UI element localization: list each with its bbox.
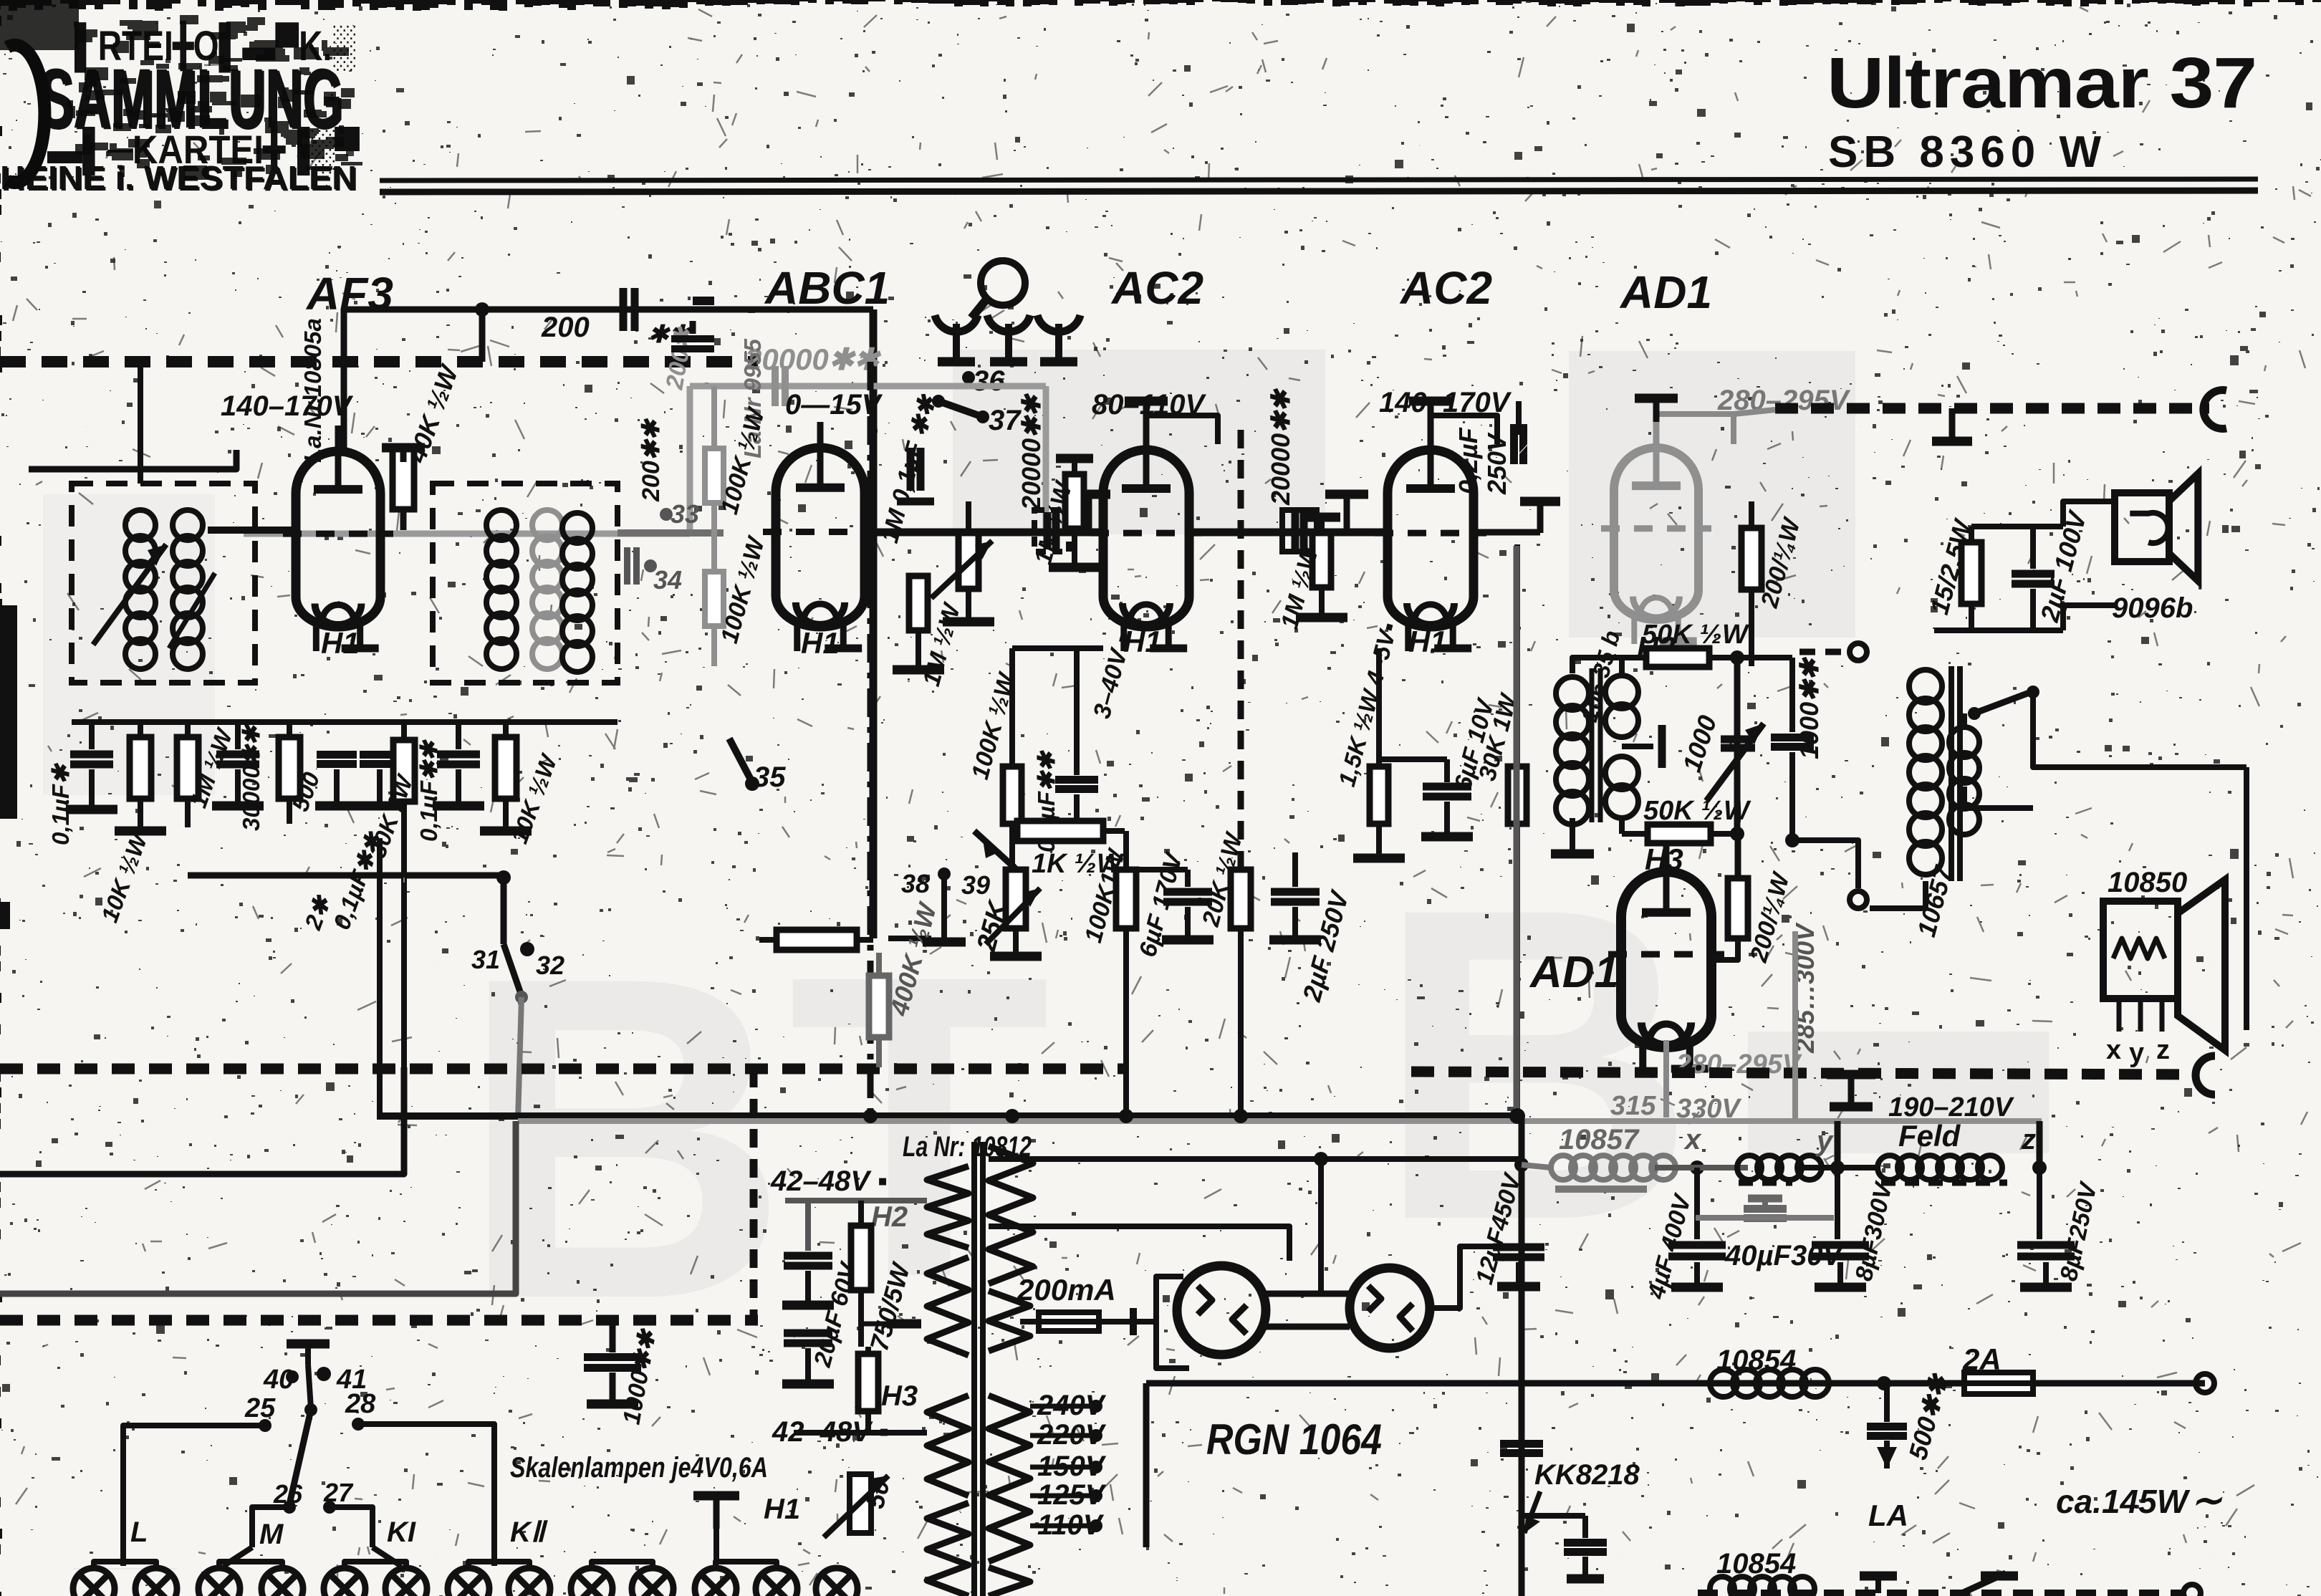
svg-text:200mA: 200mA — [1017, 1273, 1116, 1307]
HT rail ghost — [518, 1118, 2042, 1124]
chassis dashed low — [0, 1315, 758, 1326]
B+ dashed rail right — [1411, 1072, 2198, 1075]
grid cap 0,1uF — [907, 448, 915, 491]
svg-text:200✱✱: 200✱✱ — [638, 418, 665, 502]
resistor 10K 1/2W (1) — [130, 737, 151, 799]
svg-text:H3: H3 — [881, 1380, 918, 1412]
primary centre tap — [1622, 744, 1653, 749]
wire feedback — [888, 936, 931, 941]
svg-text:Skalenlampen je4V0,6A: Skalenlampen je4V0,6A — [510, 1452, 768, 1484]
capacitor 6uF 10V — [1423, 783, 1471, 791]
fuse 50 — [850, 1474, 871, 1533]
resistor 200/1.4W (2) — [1728, 878, 1748, 938]
HT dashed rail top — [1775, 403, 2209, 414]
svg-text:x: x — [2106, 1035, 2121, 1065]
wire dashes to node — [1799, 649, 1845, 655]
wire heater bottom — [794, 1430, 927, 1436]
wire speaker top loop — [1971, 524, 2063, 529]
wire HV tap mid — [989, 1226, 1289, 1261]
cap 0,2uF — [1510, 424, 1518, 464]
choke 10857 — [1551, 1155, 1575, 1180]
node A — [475, 302, 489, 317]
interstage primary lower — [1605, 756, 1638, 789]
signal wire mid — [873, 529, 1103, 537]
choke 10854 — [1710, 1370, 1737, 1397]
resistor 15/2,5W — [1961, 542, 1981, 604]
capacitor 1000** (mains) — [610, 1325, 616, 1352]
resistor 1K 1/2W — [1017, 821, 1103, 841]
wire cathode bus — [72, 719, 618, 725]
resistor 30K 1W — [393, 740, 415, 802]
capacitor 0,1uF (1) — [70, 751, 113, 759]
svg-text:M: M — [259, 1519, 284, 1550]
svg-text:RGN 1064: RGN 1064 — [1206, 1415, 1382, 1463]
svg-text:SB 8360 W: SB 8360 W — [1828, 128, 2107, 177]
wire top bus — [1737, 655, 1792, 660]
svg-text:ca.145W: ca.145W — [2056, 1483, 2191, 1520]
coupling cap 20000 (dashdot) — [1034, 510, 1069, 552]
wire fb left — [759, 937, 777, 943]
plate wire AC2-2 — [1431, 415, 1497, 444]
svg-text:La.Nr.10805a: La.Nr.10805a — [299, 318, 326, 463]
speaker matching coil — [1949, 727, 1979, 757]
svg-text:2A: 2A — [1962, 1342, 2002, 1376]
wire 2117 drop — [1514, 546, 1520, 1116]
potentiometer 1M — [958, 532, 979, 589]
resistor 750/5W — [851, 1226, 871, 1290]
svg-text:0,1µF✱✱: 0,1µF✱✱ — [415, 739, 442, 842]
svg-text:B: B — [1375, 817, 1696, 1312]
decorative — [671, 335, 714, 342]
svg-text:42–48V ▪: 42–48V ▪ — [772, 1416, 889, 1448]
resistor 100K 1/2W upper (ghost) — [705, 448, 724, 503]
capacitor 12uF450V — [1493, 1244, 1544, 1251]
resistor 1M 1/2W — [177, 737, 198, 799]
wire anode drop — [1318, 1159, 1324, 1294]
IF shield box 1 (dashed) — [72, 484, 255, 683]
svg-text:38: 38 — [901, 869, 930, 898]
switch contact 36 — [962, 371, 975, 384]
output choke winding — [1909, 670, 1942, 703]
winding bottom left — [927, 1503, 969, 1596]
svg-text:HEINE i. WESTFALEN: HEINE i. WESTFALEN — [1, 160, 358, 198]
node circle — [1850, 643, 1867, 660]
svg-text:32: 32 — [536, 951, 564, 980]
winding H1 low — [927, 1395, 969, 1496]
resistor 40K 1/2W — [393, 448, 414, 509]
winding HV anode — [989, 1146, 1033, 1284]
rect interconnect — [1266, 1291, 1350, 1297]
wire 530 drop — [377, 838, 383, 1120]
svg-text:27: 27 — [323, 1478, 354, 1507]
svg-text:y: y — [2129, 1038, 2144, 1068]
svg-text:31: 31 — [471, 945, 500, 974]
svg-text:H2: H2 — [871, 1201, 908, 1233]
switch 37 blade — [932, 395, 945, 408]
svg-text:Ultramar 37: Ultramar 37 — [1827, 43, 2257, 123]
switch 40/41 — [287, 1340, 330, 1349]
capacitor 6uF 170V — [1163, 888, 1212, 896]
svg-text:1000✱✱: 1000✱✱ — [1794, 657, 1824, 759]
tube AD1 output — [1621, 872, 1711, 1047]
node y — [1830, 1160, 1845, 1175]
capacitor 2uF 100V — [2012, 570, 2055, 578]
resistor 400K 1/2W — [869, 976, 889, 1037]
node 34 — [644, 559, 657, 572]
magnifier symbol — [981, 261, 1025, 305]
svg-text:z: z — [2156, 1035, 2170, 1065]
resistor 1M 1/2W (AC2-2) — [1312, 533, 1331, 587]
coil L2b (ghost gray) — [532, 510, 562, 540]
vertical 30K1W wire — [403, 878, 405, 883]
grid T (AD1) — [1474, 529, 1540, 536]
wire interstage top coil — [1572, 658, 1622, 673]
decorative — [772, 366, 779, 406]
interstage core — [1590, 668, 1595, 822]
rail end hook — [2196, 1056, 2215, 1095]
svg-text:35: 35 — [754, 761, 786, 793]
svg-text:AD1: AD1 — [1619, 266, 1712, 318]
wire AD1 cath (ghost) — [1663, 1040, 1669, 1117]
coil L1a — [125, 510, 155, 540]
fuse 200mA — [1039, 1312, 1099, 1331]
capacitor 500** — [1867, 1423, 1907, 1431]
switch blade 26 — [289, 1410, 311, 1504]
capacitor KK8218 lower — [1564, 1539, 1607, 1547]
winding rect filament — [989, 1291, 1030, 1351]
resistor 200/1.4W — [1741, 528, 1762, 590]
wire right rail — [2033, 713, 2246, 767]
resistor 1M 1/2W (ABC1) — [909, 576, 928, 630]
svg-text:26: 26 — [273, 1479, 303, 1509]
svg-text:140–170V: 140–170V — [221, 390, 354, 422]
mains wire — [1146, 1380, 2205, 1387]
svg-text:AC2: AC2 — [1110, 262, 1203, 314]
svg-text:250V: 250V — [1482, 432, 1512, 495]
rail T tap top — [1949, 408, 1956, 438]
wire choke bottom — [1870, 881, 1926, 908]
capacitor 30000* — [216, 751, 259, 759]
svg-text:50K ½W: 50K ½W — [1642, 620, 1750, 650]
resistor 500 — [279, 737, 300, 799]
svg-text:KI: KI — [387, 1516, 416, 1548]
contact 25 — [259, 1419, 271, 1432]
node z — [2032, 1160, 2047, 1175]
resistor 50K 1/2W (lower) — [1648, 825, 1711, 843]
coil L2b — [562, 513, 592, 543]
capacitor 1000 variable — [1721, 736, 1755, 744]
contact 28 — [352, 1418, 365, 1431]
winding LV bottom — [989, 1567, 1030, 1596]
wire x-coil — [1655, 1165, 1748, 1170]
tube ABC1 — [776, 448, 865, 627]
output choke core — [1948, 666, 1954, 881]
svg-text:34: 34 — [653, 565, 682, 595]
wire bus to resistor2 — [1735, 834, 1741, 880]
svg-text:AD1: AD1 — [1529, 948, 1619, 997]
svg-text:y: y — [1815, 1125, 1834, 1157]
grid T (AC2) — [1067, 490, 1110, 499]
winding H2 42-48V — [927, 1166, 969, 1248]
tube AF3 — [296, 451, 380, 627]
capacitor 20uF 60V a — [784, 1252, 832, 1260]
svg-text:10850: 10850 — [2108, 867, 2187, 898]
mains terminal — [2196, 1374, 2214, 1393]
tube AD1 driver (ghost) — [1614, 448, 1698, 620]
svg-text:H1: H1 — [321, 626, 360, 660]
choke small — [1737, 1155, 1762, 1180]
dial lamp feed T — [693, 1491, 739, 1501]
lamp bus — [73, 1568, 177, 1569]
resistor 100K 1W — [1116, 870, 1136, 928]
interstage primary upper — [1605, 676, 1638, 708]
coupling cap 2 — [1282, 510, 1317, 552]
antenna terminal 1 — [935, 315, 978, 332]
node x — [1690, 1160, 1704, 1175]
HT solid rail — [380, 1112, 1517, 1120]
speaker 10850 — [2103, 901, 2178, 999]
cap 34 coupling — [624, 547, 630, 585]
wire ABC1 frame right — [870, 309, 878, 938]
antenna terminal 2 — [987, 315, 1030, 332]
wire HV top to rect — [989, 1156, 1522, 1162]
dial lamps row — [73, 1568, 115, 1596]
winding LV mains — [989, 1395, 1030, 1562]
rectifier bulb 2 — [1350, 1268, 1430, 1348]
resistor h (feedback) — [777, 930, 857, 950]
svg-text:20000✱✱: 20000✱✱ — [1017, 393, 1046, 511]
wire node A to AVC bus — [479, 309, 486, 362]
wire 285 drop — [1792, 931, 1798, 1120]
svg-text:25: 25 — [244, 1393, 276, 1423]
wire switch 31 column — [501, 878, 507, 944]
volume control line (dash-dot) — [868, 362, 874, 1116]
coil L2a — [486, 510, 516, 540]
wire sg bus — [1012, 645, 1103, 651]
capacitor 20uF 60V b — [784, 1330, 832, 1337]
decorative — [0, 0, 362, 198]
svg-text:z: z — [2021, 1124, 2036, 1155]
capacitor 0,1uF (sg) — [1055, 776, 1098, 784]
signal wire 2 — [1189, 529, 1388, 537]
coil L1b — [173, 510, 203, 540]
rail T tap — [1827, 1070, 1875, 1080]
node B — [496, 870, 511, 885]
lamp feeds — [120, 1562, 126, 1566]
IF shield box 2 (dashed) — [433, 484, 618, 683]
grid line AF3 — [208, 527, 299, 534]
wire z drop — [2037, 1121, 2043, 1168]
wire loop left — [29, 450, 236, 469]
svg-text:0,2µF: 0,2µF — [1453, 427, 1483, 494]
switch shaft — [308, 1365, 311, 1408]
svg-text:KⅡ: KⅡ — [510, 1516, 548, 1548]
resistor 100K 1/2W (AC2-1) — [1003, 766, 1022, 824]
cap KK8218 coupling — [1500, 1440, 1543, 1448]
tube AC2 second — [1388, 450, 1474, 627]
wire KK column — [1519, 1116, 1525, 1596]
resistor 50K 1/2W (upper) — [1646, 648, 1709, 667]
wire 1000 bottom — [1792, 840, 1858, 888]
svg-text:10854: 10854 — [1716, 1548, 1796, 1580]
wire return lower 1 — [0, 1067, 404, 1174]
svg-text:190–210V: 190–210V — [1888, 1092, 2014, 1123]
grid line to ABC1 — [618, 529, 724, 537]
wire AD1g bus — [1734, 658, 1741, 834]
grid T (AC2-2) — [1325, 490, 1368, 499]
svg-text:10854: 10854 — [1716, 1345, 1796, 1376]
svg-text:KK8218: KK8218 — [1534, 1459, 1640, 1491]
capacitor 4uF400V — [1668, 1241, 1726, 1249]
svg-text:L: L — [130, 1516, 148, 1548]
svg-text:9096b: 9096b — [2112, 592, 2193, 624]
capacitor 1000** — [1771, 734, 1814, 741]
capacitor 200 (series) — [620, 288, 628, 331]
svg-text:ABC1: ABC1 — [764, 262, 890, 314]
capacitor 8uF300V — [1812, 1241, 1869, 1249]
wire long bottom — [188, 872, 504, 879]
svg-text:42–48V ▪: 42–48V ▪ — [770, 1165, 888, 1197]
svg-text:AC2: AC2 — [1399, 262, 1492, 314]
choke Feld — [1878, 1155, 1902, 1180]
wire to speaker1 — [2063, 501, 2115, 527]
capacitor 8uF250V — [2017, 1241, 2075, 1249]
svg-text:H1: H1 — [1408, 625, 1447, 658]
svg-text:Feld: Feld — [1898, 1119, 1961, 1153]
wire 32 down (ghost) — [518, 997, 522, 1120]
fuse 2A — [1964, 1373, 2033, 1394]
svg-text:10857: 10857 — [1559, 1124, 1640, 1155]
lamp top links — [94, 1562, 156, 1569]
transformer core — [971, 1142, 977, 1596]
speaker 9096b — [2115, 493, 2169, 562]
resistor 30K 1W (AD1 grid) — [1508, 766, 1527, 824]
svg-text:20000✱✱: 20000✱✱ — [1266, 388, 1295, 506]
svg-text:x: x — [1683, 1124, 1702, 1155]
capacitor 0,1uF (2) — [437, 751, 480, 759]
rectifier bulb 1 — [1177, 1266, 1266, 1355]
resistor 20K 1/2W — [1231, 870, 1251, 928]
wire AVC left column — [138, 362, 143, 484]
interstage transformer secondary — [1556, 677, 1589, 710]
dashed shield column — [1238, 430, 1244, 888]
node 33 — [660, 508, 673, 521]
svg-text:39: 39 — [961, 870, 990, 900]
chassis vertical link — [750, 1069, 758, 1320]
wire ghost 280V — [1734, 410, 1775, 414]
resistor heater low — [858, 1354, 878, 1411]
resistor 1M 1/2W (AC2-1) — [1065, 474, 1084, 529]
wire plate AF3 top — [344, 309, 873, 451]
svg-text:330V: 330V — [1676, 1094, 1741, 1124]
plate wire AC2-1 — [1146, 415, 1218, 444]
capacitor 2uF 250V — [1271, 888, 1320, 896]
svg-text:33: 33 — [671, 499, 699, 529]
capacitor 40uF30V — [1748, 1195, 1782, 1203]
trimmer arrow L1b — [169, 573, 215, 648]
svg-text:30000✱✱: 30000✱✱ — [238, 724, 264, 831]
capacitor pair 2x0,1uF — [317, 751, 357, 759]
resistor 1,5K (AC2-2 cath) — [1370, 766, 1388, 824]
svg-text:200: 200 — [541, 312, 590, 343]
wire y-feld — [1795, 1165, 1880, 1170]
wire switch right — [2030, 692, 2036, 713]
AVC bus (dashed) — [0, 356, 758, 367]
winding mid heater — [927, 1257, 969, 1355]
rect right wiring — [1430, 1246, 1533, 1308]
lamp select wiring — [123, 1426, 265, 1566]
svg-text:∼: ∼ — [2191, 1480, 2223, 1522]
resistor 10K 1/2W (2) — [495, 737, 516, 799]
svg-text:H1: H1 — [801, 626, 840, 660]
decorative — [244, 386, 1046, 534]
bottom edge parts — [1698, 1590, 2185, 1596]
trimmer arrow L1 — [93, 544, 166, 645]
tube AC2 first — [1103, 450, 1189, 627]
resistor 100K 1/2W lower (ghost) — [705, 572, 724, 626]
rail hook — [2204, 390, 2226, 429]
speaker 10850 terminals — [2117, 999, 2122, 1032]
wire return lower 2 — [0, 1121, 516, 1294]
wire primary ends — [1619, 658, 1625, 673]
wire taps drop — [1143, 1383, 1150, 1547]
svg-text:0,1µF✱: 0,1µF✱ — [47, 762, 74, 845]
rect left wiring — [1133, 1277, 1183, 1322]
wire bottom bus — [1119, 1109, 1133, 1123]
antenna terminal 3 — [1037, 315, 1080, 332]
svg-text:28: 28 — [345, 1389, 376, 1419]
potentiometer 25K — [1006, 870, 1026, 928]
decorative — [43, 350, 2049, 1394]
plate wire AD1-1 (ghost) — [1656, 414, 1734, 444]
svg-text:LA: LA — [1868, 1499, 1908, 1532]
node mains — [1877, 1376, 1891, 1390]
svg-text:36: 36 — [973, 365, 1005, 397]
wire heater top — [785, 1198, 927, 1203]
svg-text:315: 315 — [1610, 1091, 1656, 1121]
decorative — [380, 179, 2258, 181]
svg-text:40: 40 — [263, 1365, 294, 1395]
svg-text:H1: H1 — [764, 1494, 800, 1525]
B+ dashed rail — [0, 1064, 1125, 1075]
switch (speaker) — [1976, 691, 2033, 713]
